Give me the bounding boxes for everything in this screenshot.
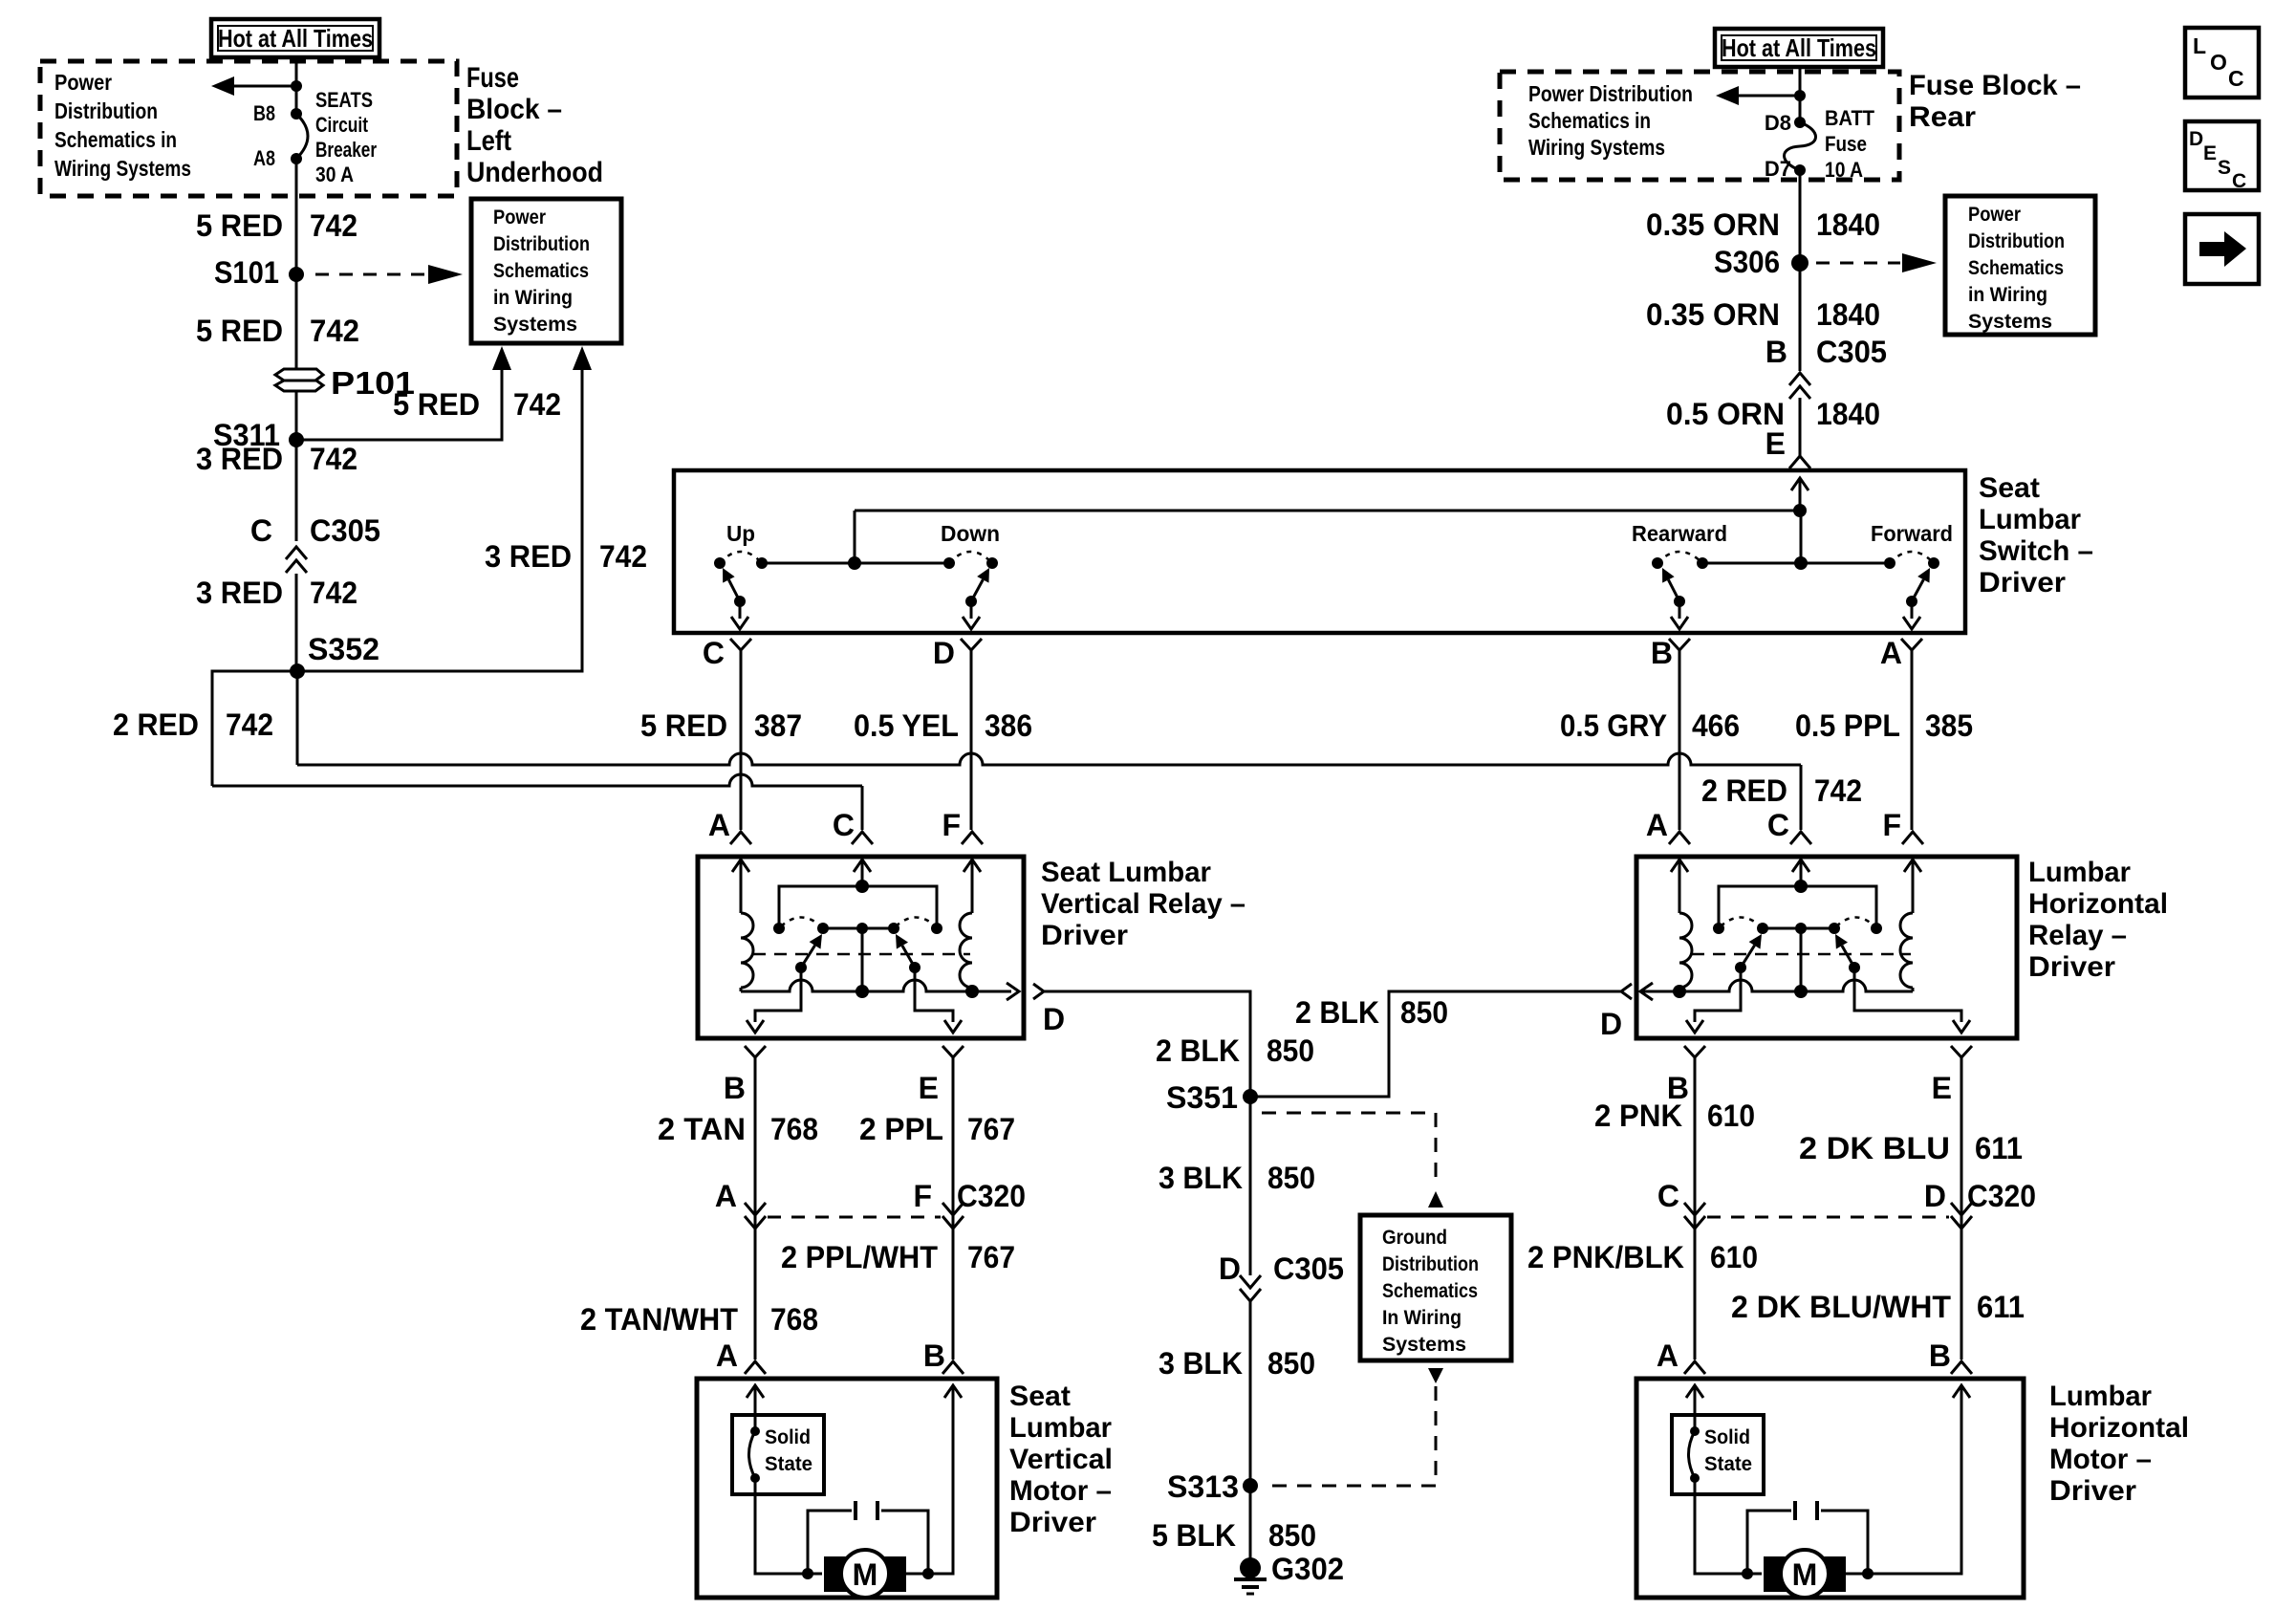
relay contacts (horizontal relay)	[1713, 923, 1724, 934]
svg-text:D: D	[1043, 1002, 1065, 1036]
switch contact Forward	[1884, 557, 1895, 569]
svg-text:D: D	[1600, 1007, 1622, 1041]
pass-through grommet P101	[275, 369, 323, 381]
wire 2 DK BLU 611 from horizontal relay E to C320 pin D	[1960, 1067, 1963, 1277]
fuse block left - dashed outline Fuse Block - Left Underhood	[40, 61, 457, 196]
svg-text:C320: C320	[957, 1179, 1026, 1213]
svg-text:Power Distribution: Power Distribution	[1528, 81, 1693, 106]
motor internal - pin A lead (vertical motor)	[747, 1385, 764, 1398]
svg-text:5 RED: 5 RED	[640, 708, 727, 743]
svg-text:C305: C305	[1273, 1251, 1344, 1286]
svg-text:2 DK BLU/WHT: 2 DK BLU/WHT	[1731, 1290, 1951, 1324]
connector pin E below horizontal relay	[1951, 1046, 1972, 1057]
relay internal - pin C lead (vertical relay)	[854, 859, 871, 872]
relay armature right (vertical relay)	[909, 962, 921, 973]
svg-text:S351: S351	[1166, 1080, 1238, 1115]
svg-text:742: 742	[310, 442, 357, 476]
svg-text:2 TAN: 2 TAN	[658, 1112, 746, 1146]
svg-text:Down: Down	[941, 521, 1000, 546]
svg-text:C320: C320	[1967, 1179, 2036, 1213]
svg-text:Schematics in: Schematics in	[54, 127, 177, 152]
wire - arrow to Power Distribution Schematics (rear)	[1734, 95, 1800, 98]
svg-text:742: 742	[310, 314, 359, 348]
splice S306	[1791, 254, 1809, 272]
svg-text:F: F	[913, 1179, 932, 1213]
svg-text:Seat: Seat	[1009, 1381, 1071, 1412]
wire from Hot at All Times (rear) down	[1799, 67, 1802, 122]
wire - upper bus 2 RED from S352 to Lumbar Horizontal Relay pin C	[296, 671, 299, 765]
svg-text:In Wiring: In Wiring	[1382, 1307, 1462, 1329]
wire 5 RED 742 from S101 to P101	[295, 274, 298, 369]
svg-text:850: 850	[1267, 1346, 1315, 1381]
svg-text:Ground: Ground	[1382, 1227, 1447, 1249]
svg-text:Motor –: Motor –	[1009, 1475, 1112, 1507]
svg-text:C305: C305	[310, 513, 380, 548]
wire 2 PNK/BLK 610 from C320 to motor pin A	[1694, 1229, 1697, 1360]
wire - switch feed from pin E inside box	[1799, 480, 1802, 511]
svg-text:5 RED: 5 RED	[196, 208, 283, 243]
svg-text:Vertical Relay –: Vertical Relay –	[1041, 888, 1245, 920]
legend box DESC	[2185, 121, 2259, 190]
svg-text:0.5 YEL: 0.5 YEL	[854, 708, 959, 743]
splice S313	[1243, 1478, 1258, 1493]
wire from P101 to S311	[295, 390, 298, 440]
svg-text:1840: 1840	[1816, 297, 1880, 332]
splice S352	[290, 664, 305, 679]
svg-text:Fuse: Fuse	[1825, 132, 1867, 156]
svg-text:2 PPL: 2 PPL	[859, 1112, 943, 1146]
fuse block rear - dashed outline Fuse Block - Rear	[1500, 72, 1899, 180]
switch contact Rearward	[1652, 557, 1663, 569]
connector pin C of vertical relay	[852, 832, 873, 844]
svg-text:Fuse Block –: Fuse Block –	[1909, 70, 2081, 101]
svg-text:3 RED: 3 RED	[196, 442, 283, 476]
wire 2 PPL/WHT 767 from C320 to motor pin B	[952, 1229, 955, 1360]
svg-text:Wiring Systems: Wiring Systems	[54, 156, 191, 181]
splice S311	[289, 432, 304, 447]
svg-text:Switch –: Switch –	[1979, 535, 2093, 567]
svg-text:D: D	[1219, 1251, 1241, 1286]
svg-text:Schematics: Schematics	[1382, 1280, 1478, 1302]
connector pin E below vertical relay	[942, 1046, 964, 1057]
svg-text:Left: Left	[466, 125, 511, 157]
svg-text:Seat Lumbar: Seat Lumbar	[1041, 857, 1211, 888]
svg-text:3 BLK: 3 BLK	[1159, 1161, 1243, 1195]
capacitor across horizontal motor	[1747, 1511, 1791, 1574]
svg-text:611: 611	[1975, 1131, 2023, 1165]
svg-text:Solid: Solid	[765, 1426, 811, 1448]
svg-text:BATT: BATT	[1825, 106, 1875, 130]
wire 2 BLK 850 from vertical relay pin D to S351	[1044, 991, 1250, 1097]
svg-text:Up: Up	[726, 521, 755, 546]
svg-text:742: 742	[226, 707, 273, 742]
connector pin B below vertical relay	[745, 1046, 766, 1057]
relay internal - pin F lead and coil (vertical relay)	[964, 859, 981, 872]
svg-text:O: O	[2210, 50, 2227, 75]
svg-text:D7: D7	[1765, 157, 1791, 181]
relay internal - pin F lead and coil (horizontal relay)	[1904, 859, 1921, 872]
fuse block rear - Hot at All Times label box	[1715, 29, 1883, 67]
svg-text:Schematics in: Schematics in	[1528, 108, 1651, 133]
relay internal - pin A lead and coil (horizontal relay)	[1671, 859, 1688, 872]
motor M (horizontal)	[1764, 1556, 1788, 1592]
svg-text:Lumbar: Lumbar	[1979, 504, 2081, 535]
motor box Lumbar Horizontal Motor - Driver	[1636, 1379, 2024, 1598]
svg-text:2 TAN/WHT: 2 TAN/WHT	[580, 1302, 738, 1337]
wire - armature right to pin E (horizontal relay)	[1854, 968, 1961, 1022]
switch contact Down	[943, 557, 955, 569]
svg-text:D: D	[1924, 1179, 1946, 1213]
wire - Up/Down common bar	[762, 562, 949, 565]
connector pin B below switch	[1669, 639, 1690, 650]
wire - pin B lead to motor (vertical motor)	[944, 1385, 962, 1398]
wire 2 TAN/WHT 768 from C320 to motor pin A	[754, 1229, 757, 1360]
svg-text:850: 850	[1400, 995, 1448, 1030]
svg-text:State: State	[1704, 1453, 1752, 1475]
svg-text:F: F	[942, 808, 961, 842]
relay internal - pin A lead and coil (vertical relay)	[732, 859, 749, 872]
svg-text:850: 850	[1267, 1033, 1314, 1068]
connector pin D of vertical relay	[1033, 984, 1044, 999]
svg-text:Circuit: Circuit	[315, 113, 369, 137]
wire - Forward armature to pin A	[1911, 601, 1914, 619]
svg-text:466: 466	[1692, 708, 1740, 743]
fuse BATT 10 A (S-curve symbol)	[1785, 122, 1816, 170]
svg-text:Schematics: Schematics	[1968, 257, 2064, 279]
dashed reference arrow from S306 to Power Distribution box (rear)	[1816, 262, 1900, 265]
svg-text:387: 387	[754, 708, 802, 743]
svg-text:S313: S313	[1167, 1469, 1239, 1504]
svg-text:Rear: Rear	[1909, 101, 1976, 133]
svg-text:Wiring Systems: Wiring Systems	[1528, 135, 1665, 160]
connector pin A of horizontal relay	[1669, 832, 1690, 844]
svg-text:Rearward: Rearward	[1632, 521, 1727, 546]
svg-text:B: B	[923, 1338, 945, 1373]
svg-text:1840: 1840	[1816, 397, 1880, 431]
svg-text:D: D	[2189, 128, 2203, 150]
svg-text:C: C	[1767, 808, 1789, 842]
svg-text:Distribution: Distribution	[493, 233, 590, 255]
reference box Power Distribution Schematics in Wiring Systems (left)	[471, 199, 621, 343]
svg-text:Hot at All Times: Hot at All Times	[1722, 33, 1876, 62]
wire 3 RED 742 from S311 to C305	[295, 440, 298, 541]
wire - Down armature to pin D	[970, 601, 973, 619]
wire 2 RED 742 branch from S352 to lower bus	[212, 671, 297, 786]
svg-text:E: E	[1765, 426, 1786, 461]
svg-text:Relay –: Relay –	[2028, 920, 2127, 951]
connector pin A of horizontal motor	[1684, 1361, 1705, 1374]
svg-text:2 RED: 2 RED	[113, 707, 199, 742]
reference box Ground Distribution Schematics in Wiring Systems	[1360, 1215, 1511, 1360]
pin D7 of BATT fuse	[1794, 164, 1806, 176]
svg-text:768: 768	[770, 1302, 818, 1337]
svg-text:Driver: Driver	[2028, 951, 2115, 983]
node - Up/Down bar junction	[848, 556, 861, 570]
svg-text:2 PPL/WHT: 2 PPL/WHT	[781, 1240, 938, 1274]
svg-text:Distribution: Distribution	[1968, 230, 2065, 252]
svg-text:2 DK BLU: 2 DK BLU	[1799, 1131, 1950, 1165]
svg-text:0.5 GRY: 0.5 GRY	[1560, 708, 1667, 743]
svg-text:2 RED: 2 RED	[1701, 773, 1787, 808]
svg-text:Underhood: Underhood	[466, 157, 603, 188]
solid state module (horizontal motor)	[1672, 1415, 1764, 1494]
wire - pin B lead to motor (horizontal motor)	[1953, 1385, 1970, 1398]
wire 5 BLK 850 from S313 to ground G302	[1249, 1486, 1252, 1560]
svg-text:2 BLK: 2 BLK	[1295, 995, 1379, 1030]
svg-text:Systems: Systems	[493, 314, 577, 336]
svg-text:in Wiring: in Wiring	[493, 287, 573, 309]
svg-text:742: 742	[1814, 773, 1862, 808]
svg-text:Horizontal: Horizontal	[2049, 1412, 2189, 1444]
svg-text:0.35 ORN: 0.35 ORN	[1646, 207, 1780, 242]
wire 0.5 PPL 385 from switch A to horizontal relay pin F	[1911, 660, 1914, 830]
wire 3 BLK 850 from S351 to C305 pin D	[1249, 1097, 1252, 1275]
wire 0.5 GRY 466 from switch B to horizontal relay pin A	[1679, 660, 1681, 830]
svg-text:Distribution: Distribution	[54, 98, 158, 123]
svg-text:Power: Power	[1968, 204, 2021, 226]
wire - internal bus from E junction to Up/Down side	[855, 510, 1800, 512]
svg-text:G302: G302	[1271, 1552, 1344, 1586]
relay box Seat Lumbar Vertical Relay - Driver	[698, 857, 1024, 1038]
svg-text:Driver: Driver	[1009, 1507, 1096, 1538]
svg-text:3 RED: 3 RED	[196, 576, 283, 610]
switch armature Down	[965, 596, 977, 607]
svg-text:610: 610	[1707, 1099, 1755, 1133]
node - switch feed junction	[1793, 504, 1807, 517]
connector pin D below switch	[961, 639, 982, 650]
svg-text:C: C	[1657, 1179, 1679, 1213]
svg-text:Motor –: Motor –	[2049, 1444, 2152, 1475]
svg-text:B: B	[1765, 335, 1787, 369]
svg-text:5 RED: 5 RED	[196, 314, 283, 348]
motor box Seat Lumbar Vertical Motor - Driver	[697, 1379, 997, 1598]
svg-text:0.5 PPL: 0.5 PPL	[1795, 708, 1900, 743]
svg-text:in Wiring: in Wiring	[1968, 284, 2047, 306]
svg-text:A: A	[708, 808, 730, 842]
svg-text:A: A	[716, 1338, 738, 1373]
svg-text:E: E	[2203, 142, 2217, 164]
wire 5 RED 742 from S311 up to Power Distribution box (arrow)	[296, 358, 502, 440]
switch armature Forward	[1906, 596, 1917, 607]
wire - lower bus 2 RED to Seat Lumbar Vertical Relay pin C	[212, 774, 862, 786]
wire 3 RED 742 from C305 to S352	[295, 574, 298, 671]
svg-text:Vertical: Vertical	[1009, 1444, 1113, 1475]
wire 2 PNK 610 from horizontal relay B to C320 pin C	[1694, 1067, 1697, 1277]
svg-text:Hot at All Times: Hot at All Times	[218, 24, 373, 53]
svg-text:Driver: Driver	[2049, 1475, 2136, 1507]
svg-text:E: E	[919, 1071, 939, 1105]
wire - left feed from Hot at All Times into fuse block	[295, 57, 298, 114]
relay internal - pin C lead (horizontal relay)	[1792, 859, 1809, 872]
svg-text:742: 742	[310, 576, 357, 610]
svg-text:30 A: 30 A	[315, 163, 354, 186]
svg-text:Forward: Forward	[1871, 521, 1953, 546]
svg-text:742: 742	[310, 208, 357, 243]
legend box LOC	[2185, 28, 2259, 98]
connector pin A below switch	[1901, 639, 1922, 650]
svg-text:M: M	[853, 1557, 878, 1592]
svg-text:767: 767	[967, 1112, 1015, 1146]
node - junction to power distribution arrow	[291, 80, 302, 92]
svg-text:Lumbar: Lumbar	[2049, 1381, 2152, 1412]
svg-text:C: C	[2228, 66, 2244, 91]
svg-text:State: State	[765, 1453, 812, 1475]
svg-text:Distribution: Distribution	[1382, 1253, 1479, 1275]
capacitor across vertical motor	[808, 1511, 852, 1574]
svg-text:C: C	[2232, 170, 2246, 192]
svg-text:Lumbar: Lumbar	[2028, 857, 2131, 888]
motor internal - pin A lead (horizontal motor)	[1686, 1385, 1703, 1398]
wire - Rearward/Forward common bar	[1702, 562, 1890, 565]
switch armature Rearward	[1674, 596, 1685, 607]
svg-text:A: A	[1657, 1338, 1679, 1373]
dashed reference from Ground Distribution box to S313	[1428, 1368, 1443, 1383]
wire - armature left to pin B (horizontal relay)	[1695, 968, 1741, 1022]
wire 5 RED 387 from switch C to relay pin A	[740, 660, 743, 830]
reference box Power Distribution Schematics in Wiring Systems (rear)	[1945, 196, 2095, 335]
svg-text:A8: A8	[253, 146, 275, 170]
svg-text:E: E	[1932, 1071, 1952, 1105]
svg-text:Schematics: Schematics	[493, 260, 589, 282]
svg-text:F: F	[1882, 808, 1901, 842]
wire 5 RED 742 from breaker A8 down to S101	[295, 159, 298, 274]
splice S351	[1243, 1089, 1258, 1104]
wire - Up armature to pin C	[739, 601, 742, 619]
wire 0.5 ORN 1840 from C305 to switch pin E	[1799, 398, 1802, 456]
svg-text:742: 742	[599, 539, 647, 574]
svg-text:767: 767	[967, 1240, 1015, 1274]
svg-text:2 PNK: 2 PNK	[1594, 1099, 1682, 1133]
svg-text:10 A: 10 A	[1825, 158, 1863, 182]
connector pin C of horizontal relay	[1790, 832, 1811, 844]
node - Rearward/Forward bar junction	[1794, 556, 1808, 570]
svg-text:5 BLK: 5 BLK	[1152, 1518, 1236, 1553]
relay armature left (vertical relay)	[795, 962, 807, 973]
svg-text:B: B	[1929, 1338, 1951, 1373]
svg-text:S101: S101	[214, 255, 279, 290]
relay contacts (vertical relay)	[773, 923, 785, 934]
wire 2 DK BLU/WHT 611 from C320 to motor pin B	[1960, 1229, 1963, 1360]
motor M (vertical)	[824, 1556, 849, 1592]
svg-text:1840: 1840	[1816, 207, 1880, 242]
wire 0.35 ORN 1840 from D7 to S306	[1799, 170, 1802, 263]
svg-text:3 BLK: 3 BLK	[1159, 1346, 1243, 1381]
ground G302	[1240, 1557, 1261, 1578]
svg-text:Driver: Driver	[1041, 920, 1128, 951]
connector pin F of vertical relay	[962, 832, 983, 844]
svg-text:B: B	[724, 1071, 746, 1105]
svg-text:Block –: Block –	[466, 94, 562, 125]
svg-text:Power: Power	[54, 70, 112, 95]
relay box Lumbar Horizontal Relay - Driver	[1636, 857, 2017, 1038]
svg-text:3 RED: 3 RED	[485, 539, 572, 574]
svg-text:Systems: Systems	[1968, 311, 2052, 333]
splice S101	[289, 267, 304, 282]
svg-text:S352: S352	[308, 632, 379, 666]
node - junction to power distribution arrow (rear)	[1794, 90, 1806, 101]
connector pin C below switch	[730, 639, 751, 650]
svg-text:611: 611	[1977, 1290, 2025, 1324]
switch contact Up	[714, 557, 726, 569]
svg-text:A: A	[715, 1179, 737, 1213]
wire - armature left to pin B (vertical relay)	[755, 968, 801, 1022]
solid state module (vertical motor)	[732, 1415, 824, 1494]
fuse block left - Hot at All Times label box	[211, 19, 379, 57]
switch box Seat Lumbar Switch - Driver	[674, 470, 1965, 633]
wire - solid state to motor brush (horizontal motor)	[1695, 1478, 1762, 1574]
svg-text:768: 768	[770, 1112, 818, 1146]
connector pin A of vertical motor	[745, 1361, 766, 1374]
svg-text:C: C	[703, 636, 725, 670]
svg-text:Horizontal: Horizontal	[2028, 888, 2168, 920]
svg-text:B8: B8	[253, 101, 275, 125]
svg-text:Systems: Systems	[1382, 1334, 1466, 1356]
wire 0.5 YEL 386 from switch D to relay pin F	[970, 660, 973, 830]
connector pin B below horizontal relay	[1684, 1046, 1705, 1057]
svg-text:0.35 ORN: 0.35 ORN	[1646, 297, 1780, 332]
svg-text:Driver: Driver	[1979, 567, 2066, 598]
wire - Rearward armature to pin B	[1679, 601, 1681, 619]
svg-text:385: 385	[1925, 708, 1973, 743]
wire - horizontal relay common bus to pin D (exits left)	[1640, 980, 1913, 991]
pin A8 of SEATS circuit breaker	[291, 153, 302, 164]
svg-text:L: L	[2193, 33, 2206, 58]
svg-text:Fuse: Fuse	[466, 62, 519, 94]
svg-text:S: S	[2218, 157, 2231, 179]
svg-text:D: D	[933, 636, 955, 670]
svg-text:M: M	[1792, 1557, 1818, 1592]
wire 2 BLK 850 from horizontal relay pin D to S351	[1250, 991, 1621, 1097]
svg-text:Power: Power	[493, 207, 546, 228]
svg-text:C: C	[250, 513, 272, 548]
svg-text:SEATS: SEATS	[315, 88, 373, 112]
svg-text:B: B	[1651, 636, 1673, 670]
svg-text:610: 610	[1710, 1240, 1758, 1274]
svg-text:Lumbar: Lumbar	[1009, 1412, 1112, 1444]
pin B8 of SEATS circuit breaker	[291, 108, 302, 120]
wire - arrow to Power Distribution Schematics (left)	[229, 85, 296, 88]
wire - vertical relay common bus to pin D	[741, 980, 1011, 991]
svg-text:850: 850	[1267, 1161, 1315, 1195]
svg-text:A: A	[1880, 636, 1902, 670]
switch armature Up	[734, 596, 746, 607]
svg-text:386: 386	[985, 708, 1032, 743]
wire 3 RED 742 from S352 up to Power Distribution box (arrow)	[297, 358, 582, 671]
pin D8 of BATT fuse	[1794, 117, 1806, 128]
circuit breaker CB SEATS 30 A (curve symbol)	[296, 114, 308, 159]
svg-text:Seat: Seat	[1979, 472, 2040, 504]
connector pin B of horizontal motor	[1951, 1361, 1972, 1374]
svg-text:850: 850	[1268, 1518, 1316, 1553]
wire 2 TAN 768 from vertical relay B to C320 pin A	[754, 1067, 757, 1277]
connector pin B of vertical motor	[942, 1361, 964, 1374]
dashed reference from S351 to Ground Distribution box	[1262, 1113, 1436, 1187]
wire 3 BLK 850 from C305 to S313	[1249, 1301, 1252, 1486]
connector pin A of vertical relay	[730, 832, 751, 844]
relay armature right (horizontal relay)	[1849, 962, 1860, 973]
connector pin F of horizontal relay	[1902, 832, 1923, 844]
svg-text:2 BLK: 2 BLK	[1156, 1033, 1240, 1068]
wire 2 PPL 767 from vertical relay E to C320 pin F	[952, 1067, 955, 1277]
connector pin D of horizontal relay	[1621, 984, 1632, 999]
svg-text:A: A	[1646, 808, 1668, 842]
svg-text:D8: D8	[1765, 111, 1791, 135]
wire 0.35 ORN 1840 from S306 to C305 pin B	[1799, 263, 1802, 371]
svg-text:C: C	[833, 808, 855, 842]
dashed reference arrow from S101 to Power Distribution box	[315, 273, 427, 276]
svg-text:Breaker: Breaker	[315, 138, 377, 162]
svg-text:Solid: Solid	[1704, 1426, 1750, 1448]
